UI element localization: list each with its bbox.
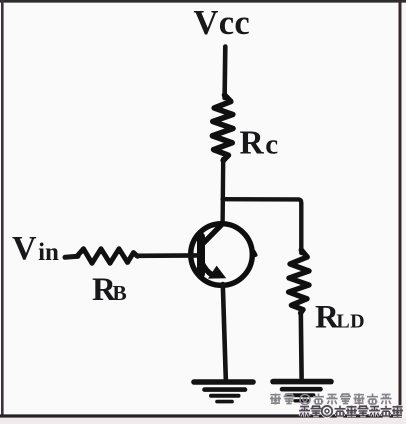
watermark line 2: 头条 @李工谈元器件 <box>299 406 403 417</box>
wire emitter to ground <box>223 284 226 379</box>
ground (RLD) <box>273 382 331 401</box>
resistor RLD <box>289 250 309 313</box>
wire Vin lead <box>65 256 78 257</box>
wire RLD to ground <box>298 312 303 379</box>
wire Vcc to Rc <box>222 47 227 99</box>
watermark line 1: 知乎 @李工谈元器件 <box>270 394 392 405</box>
transistor Q1 (NPN) <box>191 224 256 286</box>
resistor Rc <box>212 95 233 161</box>
resistor RB <box>77 249 138 263</box>
ground (emitter) <box>194 382 253 402</box>
svg-text:Vcc: Vcc <box>194 4 250 42</box>
wire Rc to collector <box>220 159 225 224</box>
svg-text:Rc: Rc <box>240 125 279 162</box>
wire collector node to RLD branch <box>223 199 302 253</box>
wire RB to base <box>137 253 199 258</box>
frame (decorative) <box>0 0 406 3</box>
